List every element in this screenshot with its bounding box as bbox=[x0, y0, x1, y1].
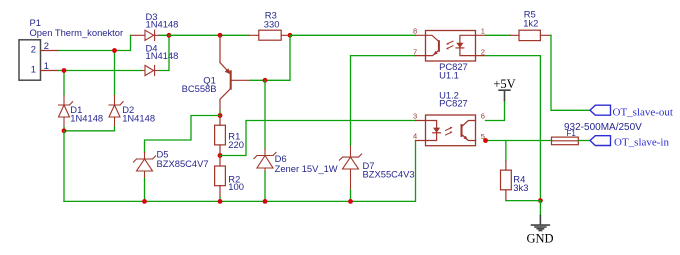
svg-text:GND: GND bbox=[526, 232, 553, 246]
svg-text:100: 100 bbox=[228, 181, 244, 192]
wire U1.2 pin5 to fuse F1 bbox=[486, 140, 552, 142]
wire D1-D2 bottom tie bbox=[64, 127, 115, 131]
flag OT_slave-out bbox=[590, 105, 673, 118]
junction base node bbox=[263, 78, 268, 83]
wire D7 bottom to rail bbox=[350, 190, 352, 201]
junction top rail / Q1 emitter bbox=[218, 33, 223, 38]
zener D6 Zener 15V_1W bbox=[254, 149, 276, 172]
resistor R2 100 bbox=[215, 156, 226, 198]
svg-text:2: 2 bbox=[481, 47, 485, 56]
svg-text:3k3: 3k3 bbox=[513, 182, 528, 193]
wire pin5 node down to R4 bbox=[505, 141, 507, 162]
wire top rail R3 to U1 pin8 bbox=[290, 34, 416, 36]
svg-text:330: 330 bbox=[264, 18, 280, 29]
U1.1 light arrows bbox=[448, 41, 453, 48]
svg-text:220: 220 bbox=[228, 139, 244, 150]
svg-text:Zener 15V_1W: Zener 15V_1W bbox=[275, 163, 338, 174]
wire R5 to OT_slave-out flag bbox=[551, 35, 590, 110]
junction rail R2 bbox=[218, 199, 223, 204]
U1.1 emitter arrowhead bbox=[433, 51, 438, 55]
svg-text:2: 2 bbox=[31, 44, 36, 55]
svg-text:1: 1 bbox=[31, 64, 36, 75]
svg-text:6: 6 bbox=[481, 112, 485, 121]
zener D7 BZX55C4V3 bbox=[339, 145, 361, 190]
wire R4 bottom to GND node bbox=[506, 200, 541, 202]
svg-text:1: 1 bbox=[481, 26, 485, 35]
wire pin2 net down to D2 bbox=[114, 51, 116, 96]
wire base node down to D6 bbox=[264, 80, 266, 149]
svg-text:1k2: 1k2 bbox=[523, 18, 538, 29]
supply +5V bbox=[499, 90, 510, 100]
wire D7 top to U1.1 pin7 bbox=[351, 56, 416, 145]
wire pin1 net: P1.1 to D4 anode bbox=[58, 70, 142, 72]
svg-text:1N4148: 1N4148 bbox=[122, 113, 155, 124]
resistor R3 330 bbox=[249, 30, 290, 40]
wire U1.2 pin6 to +5V bbox=[486, 100, 505, 120]
svg-text:OT_slave-out: OT_slave-out bbox=[613, 106, 673, 118]
fuse F1 932-500MA/250V bbox=[552, 137, 579, 145]
svg-text:BZX55C4V3: BZX55C4V3 bbox=[363, 169, 415, 180]
svg-text:OT_slave-in: OT_slave-in bbox=[614, 137, 669, 149]
wire U1.1 pin2 down to GND bbox=[486, 56, 541, 201]
junction pin1/D1 bbox=[62, 68, 67, 73]
svg-text:1N4148: 1N4148 bbox=[70, 113, 103, 124]
U1.1 LED filled bbox=[456, 43, 463, 48]
junction D3/D4 bbox=[167, 33, 172, 38]
svg-text:BZX85C4V7: BZX85C4V7 bbox=[157, 158, 209, 169]
U1.2 emitter arrowhead bbox=[463, 136, 468, 140]
wire pin1 net down to D1 bbox=[63, 71, 65, 96]
flag OT_slave-in bbox=[590, 136, 669, 149]
svg-text:PC827: PC827 bbox=[439, 97, 468, 108]
svg-text:1N4148: 1N4148 bbox=[146, 50, 179, 61]
resistor R5 1k2 bbox=[510, 30, 551, 40]
svg-text:1N4148: 1N4148 bbox=[146, 18, 179, 29]
wire D3/D4 cathodes join bbox=[160, 35, 170, 70]
wire Q1 collector to junction bbox=[219, 111, 221, 116]
wire ground rail bbox=[64, 141, 416, 202]
svg-text:BC558B: BC558B bbox=[182, 83, 217, 94]
zener D5 BZX85C4V7 bbox=[133, 153, 155, 179]
svg-text:7: 7 bbox=[413, 47, 417, 56]
junction rail D5 bbox=[142, 199, 147, 204]
junction rail D7 bbox=[348, 199, 353, 204]
junction GND node bbox=[538, 198, 543, 203]
diode D2 1N4148 bbox=[109, 96, 123, 128]
wire D6 bottom to rail bbox=[264, 172, 266, 202]
optocoupler U1.1 PC827 bbox=[426, 31, 476, 62]
junction R3 right bbox=[288, 33, 293, 38]
transistor Q1 BC558B bbox=[220, 35, 251, 111]
junction rail D6 bbox=[263, 199, 268, 204]
wire F1 to OT_slave-in flag bbox=[578, 140, 590, 142]
junction pin5 bbox=[483, 138, 488, 143]
wire R2 bottom to rail bbox=[219, 197, 221, 201]
junction R1/R2 divider tap bbox=[218, 153, 223, 158]
svg-text:2: 2 bbox=[44, 40, 49, 51]
wire Q1 base to node bbox=[251, 35, 290, 80]
junction pin2/D2 bbox=[112, 48, 117, 53]
wire U1.1 pin1 to R5 bbox=[486, 34, 511, 36]
svg-text:932-500MA/250V: 932-500MA/250V bbox=[564, 122, 642, 133]
ground GND symbol bbox=[539, 201, 541, 216]
wire top rail to R3 bbox=[169, 34, 249, 36]
wire pin2 net: P1.2 to D3 anode bbox=[58, 35, 131, 50]
svg-text:+5V: +5V bbox=[493, 77, 515, 91]
diode D1 1N4148 bbox=[59, 96, 73, 128]
svg-text:8: 8 bbox=[413, 26, 417, 35]
wire D5 bottom to rail bbox=[144, 179, 146, 202]
optocoupler U1.2 PC827 bbox=[426, 115, 476, 146]
svg-text:Open Therm_konektor: Open Therm_konektor bbox=[30, 27, 124, 38]
junction D1 bottom bbox=[62, 128, 67, 133]
connector P1 bbox=[19, 17, 123, 80]
diode D4 1N4148 bbox=[142, 65, 160, 75]
wire D1 bottom to ground rail bbox=[63, 131, 65, 202]
diode D3 1N4148 bbox=[131, 30, 160, 40]
junction Q1 collector / R1 bbox=[218, 113, 223, 118]
U1.2 LED filled bbox=[433, 128, 440, 133]
svg-text:U1.1: U1.1 bbox=[439, 70, 459, 81]
U1.2 light arrows bbox=[446, 128, 451, 135]
Q1 emitter arrowhead bbox=[225, 68, 231, 74]
svg-text:3: 3 bbox=[413, 112, 417, 121]
wire divider tap to U1.2 pin3 bbox=[220, 121, 416, 156]
wire collector node to D5 bbox=[145, 116, 221, 153]
resistor R1 220 bbox=[215, 116, 226, 156]
resistor R4 3k3 bbox=[501, 161, 512, 201]
svg-text:4: 4 bbox=[413, 132, 417, 141]
svg-text:1: 1 bbox=[44, 60, 49, 71]
